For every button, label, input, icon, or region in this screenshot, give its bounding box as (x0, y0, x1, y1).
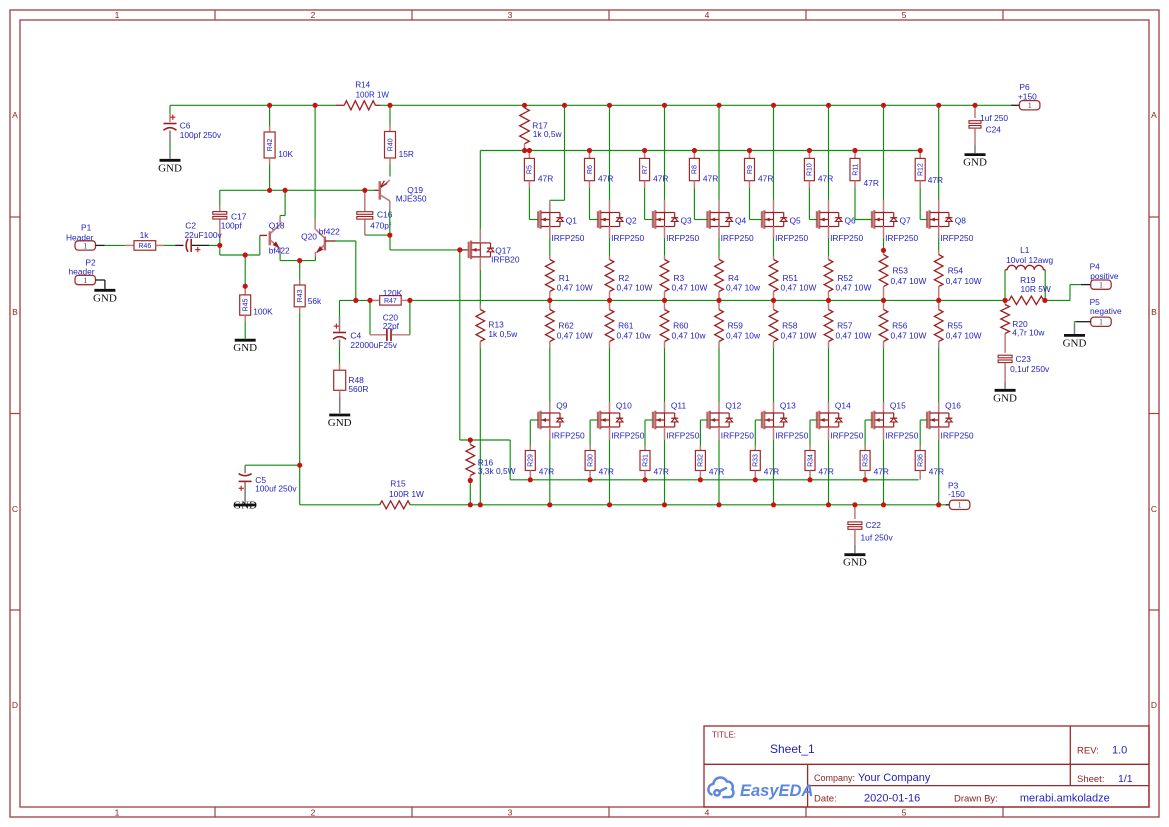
svg-text:3: 3 (508, 808, 513, 818)
svg-text:47R: 47R (653, 174, 668, 184)
svg-text:R5: R5 (527, 165, 534, 174)
svg-text:100pf 250v: 100pf 250v (180, 130, 222, 140)
svg-text:Q9: Q9 (556, 400, 568, 410)
svg-text:Q7: Q7 (900, 216, 912, 226)
svg-text:IRFP250: IRFP250 (941, 431, 974, 441)
svg-text:1: 1 (1028, 101, 1032, 110)
svg-text:Drawn By:: Drawn By: (954, 794, 998, 805)
svg-text:Q1: Q1 (566, 216, 578, 226)
svg-text:1k 0,5w: 1k 0,5w (488, 329, 518, 339)
svg-text:R1: R1 (559, 273, 570, 283)
svg-text:0,1uf 250v: 0,1uf 250v (1010, 364, 1050, 374)
svg-text:R51: R51 (783, 273, 799, 283)
svg-text:R30: R30 (587, 454, 594, 467)
svg-text:Your Company: Your Company (858, 772, 931, 784)
svg-text:47R: 47R (654, 467, 669, 477)
svg-text:IRFP250: IRFP250 (721, 233, 754, 243)
svg-text:1.0: 1.0 (1112, 745, 1127, 757)
svg-text:C: C (1151, 504, 1157, 514)
svg-text:4,7r 10w: 4,7r 10w (1012, 328, 1045, 338)
svg-text:4: 4 (705, 10, 710, 20)
svg-text:0,47 10W: 0,47 10W (891, 276, 927, 286)
svg-text:47R: 47R (703, 174, 718, 184)
svg-text:EasyEDA: EasyEDA (740, 782, 813, 800)
svg-text:C6: C6 (180, 121, 191, 131)
svg-text:R59: R59 (728, 321, 744, 331)
svg-text:TITLE:: TITLE: (712, 731, 736, 740)
svg-text:GND: GND (993, 392, 1017, 404)
svg-text:100R 1W: 100R 1W (389, 489, 424, 499)
svg-text:Q8: Q8 (955, 216, 967, 226)
svg-text:Company:: Company: (814, 773, 855, 783)
svg-text:1: 1 (1099, 281, 1103, 290)
svg-text:R15: R15 (390, 479, 406, 489)
svg-text:1: 1 (83, 276, 87, 285)
svg-text:REV:: REV: (1077, 746, 1099, 757)
svg-text:negative: negative (1090, 306, 1122, 316)
svg-text:positive: positive (1090, 271, 1119, 281)
svg-text:R46: R46 (138, 243, 151, 250)
svg-text:C: C (12, 504, 18, 514)
svg-text:Q20: Q20 (301, 232, 317, 242)
svg-text:IRFP250: IRFP250 (666, 233, 699, 243)
svg-text:Q18: Q18 (269, 221, 285, 231)
svg-text:Sheet:: Sheet: (1077, 774, 1104, 785)
svg-text:+150: +150 (1018, 91, 1037, 101)
svg-text:1/1: 1/1 (1118, 773, 1133, 785)
svg-text:IRFP250: IRFP250 (885, 233, 918, 243)
svg-text:C2: C2 (185, 221, 196, 231)
svg-text:R12: R12 (918, 163, 925, 176)
svg-text:100R 1W: 100R 1W (356, 90, 390, 99)
svg-text:47R: 47R (598, 174, 613, 184)
svg-text:0,47 10w: 0,47 10w (726, 283, 761, 293)
svg-text:10K: 10K (278, 149, 293, 159)
svg-text:2020-01-16: 2020-01-16 (864, 793, 920, 805)
svg-text:10R 5W: 10R 5W (1021, 284, 1051, 294)
svg-text:R9: R9 (747, 165, 754, 174)
svg-text:Q3: Q3 (681, 216, 693, 226)
svg-text:D: D (1151, 700, 1157, 710)
svg-text:P1: P1 (81, 223, 92, 233)
svg-text:47R: 47R (928, 175, 943, 185)
svg-text:A: A (12, 110, 18, 120)
svg-text:R45: R45 (243, 298, 250, 311)
svg-text:R10: R10 (807, 163, 814, 176)
svg-text:4: 4 (705, 808, 710, 818)
svg-text:IRFP250: IRFP250 (830, 431, 863, 441)
svg-text:R13: R13 (488, 320, 504, 330)
svg-text:Q13: Q13 (780, 400, 796, 410)
svg-text:D: D (12, 700, 18, 710)
svg-text:GND: GND (233, 342, 257, 354)
svg-text:R2: R2 (619, 273, 630, 283)
svg-text:R6: R6 (587, 165, 594, 174)
svg-text:22pf: 22pf (383, 321, 400, 331)
svg-text:R3: R3 (674, 273, 685, 283)
svg-text:R60: R60 (673, 321, 689, 331)
svg-text:0,47 10w: 0,47 10w (726, 331, 761, 341)
svg-text:R56: R56 (892, 321, 908, 331)
svg-text:GND: GND (963, 157, 987, 169)
svg-text:Q12: Q12 (725, 400, 741, 410)
svg-text:C23: C23 (1016, 354, 1032, 364)
svg-text:R53: R53 (893, 266, 909, 276)
svg-text:0,47 10W: 0,47 10W (557, 331, 593, 341)
svg-text:R47: R47 (384, 298, 397, 305)
svg-text:100K: 100K (253, 307, 273, 317)
svg-text:R33: R33 (753, 454, 760, 467)
svg-text:47R: 47R (538, 174, 553, 184)
svg-text:IRFP250: IRFP250 (721, 431, 754, 441)
svg-text:IRFP250: IRFP250 (551, 233, 584, 243)
svg-text:R34: R34 (807, 454, 814, 467)
svg-text:2: 2 (311, 10, 316, 20)
svg-text:1: 1 (115, 10, 120, 20)
svg-text:R35: R35 (862, 454, 869, 467)
svg-text:1: 1 (83, 241, 87, 250)
svg-text:L1: L1 (1020, 245, 1030, 255)
svg-text:47R: 47R (819, 467, 834, 477)
svg-text:47R: 47R (709, 467, 724, 477)
svg-text:1uf 250: 1uf 250 (980, 113, 1008, 123)
svg-text:5: 5 (902, 10, 907, 20)
svg-text:IRFP250: IRFP250 (666, 431, 699, 441)
svg-text:1k 0,5w: 1k 0,5w (533, 129, 563, 139)
svg-text:0,47 10W: 0,47 10W (617, 283, 653, 293)
svg-text:R8: R8 (692, 165, 699, 174)
svg-text:3: 3 (508, 10, 513, 20)
svg-text:Q6: Q6 (845, 216, 857, 226)
svg-text:R43: R43 (297, 289, 304, 302)
svg-text:R14: R14 (355, 81, 370, 90)
svg-text:R62: R62 (558, 321, 574, 331)
svg-text:47R: 47R (599, 467, 614, 477)
svg-text:47R: 47R (864, 178, 879, 188)
svg-text:100pf: 100pf (221, 221, 243, 231)
svg-text:IRFB20: IRFB20 (491, 255, 520, 265)
svg-text:R36: R36 (918, 454, 925, 467)
svg-text:47R: 47R (874, 467, 889, 477)
svg-text:Sheet_1: Sheet_1 (770, 742, 815, 756)
svg-text:100uf 250v: 100uf 250v (255, 484, 297, 494)
svg-text:IRFP250: IRFP250 (885, 431, 918, 441)
svg-text:1uf 250v: 1uf 250v (861, 533, 894, 543)
svg-text:56k: 56k (308, 296, 322, 306)
svg-text:0,47 10W: 0,47 10W (946, 331, 982, 341)
svg-text:0,47 10W: 0,47 10W (557, 283, 593, 293)
svg-text:C22: C22 (866, 520, 882, 530)
svg-text:Q2: Q2 (626, 216, 638, 226)
svg-text:R4: R4 (728, 273, 739, 283)
svg-text:0,47 10W: 0,47 10W (836, 283, 872, 293)
svg-text:R61: R61 (618, 321, 634, 331)
svg-text:B: B (12, 307, 18, 317)
svg-text:bf422: bf422 (319, 227, 340, 237)
svg-text:R32: R32 (698, 454, 705, 467)
svg-text:5: 5 (902, 808, 907, 818)
svg-text:IRFP250: IRFP250 (552, 431, 585, 441)
svg-text:MJE350: MJE350 (396, 194, 427, 204)
svg-text:R52: R52 (838, 273, 854, 283)
svg-text:R31: R31 (642, 454, 649, 467)
svg-text:47R: 47R (818, 174, 833, 184)
svg-text:47R: 47R (539, 467, 554, 477)
svg-text:470pf: 470pf (370, 220, 392, 230)
svg-text:IRFP250: IRFP250 (940, 233, 973, 243)
svg-text:15R: 15R (399, 149, 414, 159)
svg-text:GND: GND (1063, 337, 1087, 349)
svg-text:C4: C4 (350, 331, 361, 341)
svg-text:10vol 12awg: 10vol 12awg (1006, 255, 1053, 265)
svg-text:0,47 10W: 0,47 10W (891, 331, 927, 341)
svg-text:IRFP250: IRFP250 (611, 431, 644, 441)
svg-text:GND: GND (233, 500, 257, 512)
svg-text:GND: GND (93, 292, 117, 304)
svg-text:560R: 560R (348, 384, 368, 394)
svg-text:-150: -150 (948, 489, 965, 499)
svg-text:1: 1 (115, 808, 120, 818)
svg-text:1k: 1k (140, 230, 150, 240)
svg-text:R40: R40 (387, 138, 394, 151)
svg-text:R57: R57 (837, 321, 853, 331)
svg-text:22000uF25v: 22000uF25v (350, 340, 397, 350)
svg-text:Q11: Q11 (671, 400, 687, 410)
svg-text:Date:: Date: (814, 794, 837, 805)
svg-text:0,47 10W: 0,47 10W (781, 331, 817, 341)
svg-text:IRFP250: IRFP250 (611, 233, 644, 243)
svg-text:IRFP250: IRFP250 (830, 233, 863, 243)
svg-text:R58: R58 (782, 321, 798, 331)
svg-text:Q5: Q5 (790, 216, 802, 226)
svg-text:R42: R42 (267, 138, 274, 151)
svg-text:R54: R54 (948, 266, 964, 276)
svg-text:47R: 47R (764, 467, 779, 477)
svg-text:R11: R11 (852, 163, 859, 175)
svg-text:Q14: Q14 (835, 400, 851, 410)
svg-text:0,47 10w: 0,47 10w (617, 331, 652, 341)
svg-text:IRFP250: IRFP250 (775, 233, 808, 243)
svg-text:0,47 10W: 0,47 10W (836, 331, 872, 341)
svg-text:B: B (1151, 307, 1157, 317)
svg-text:GND: GND (158, 162, 182, 174)
svg-text:C24: C24 (986, 125, 1002, 135)
svg-text:1: 1 (1099, 318, 1103, 327)
svg-text:Q15: Q15 (890, 400, 906, 410)
svg-text:bf422: bf422 (269, 245, 290, 255)
svg-text:2: 2 (311, 808, 316, 818)
svg-text:47R: 47R (758, 174, 773, 184)
svg-text:0,47 10W: 0,47 10W (946, 276, 982, 286)
svg-text:Q10: Q10 (616, 400, 632, 410)
svg-text:P4: P4 (1090, 262, 1101, 272)
svg-text:Q4: Q4 (735, 216, 747, 226)
svg-text:Q16: Q16 (945, 400, 961, 410)
svg-text:R29: R29 (528, 454, 535, 467)
svg-text:120K: 120K (383, 288, 403, 298)
svg-text:0,47 10w: 0,47 10w (672, 331, 707, 341)
svg-text:A: A (1151, 110, 1157, 120)
svg-text:R55: R55 (947, 321, 963, 331)
svg-text:22uF100v: 22uF100v (185, 230, 223, 240)
svg-text:merabi.amkoladze: merabi.amkoladze (1020, 793, 1110, 805)
svg-text:0,47 10W: 0,47 10W (781, 283, 817, 293)
svg-text:0,47 10W: 0,47 10W (672, 283, 708, 293)
svg-text:1: 1 (958, 501, 962, 510)
svg-text:R7: R7 (642, 165, 649, 174)
svg-text:47R: 47R (929, 467, 944, 477)
svg-text:GND: GND (843, 557, 867, 569)
svg-text:IRFP250: IRFP250 (775, 431, 808, 441)
svg-text:GND: GND (328, 417, 352, 429)
